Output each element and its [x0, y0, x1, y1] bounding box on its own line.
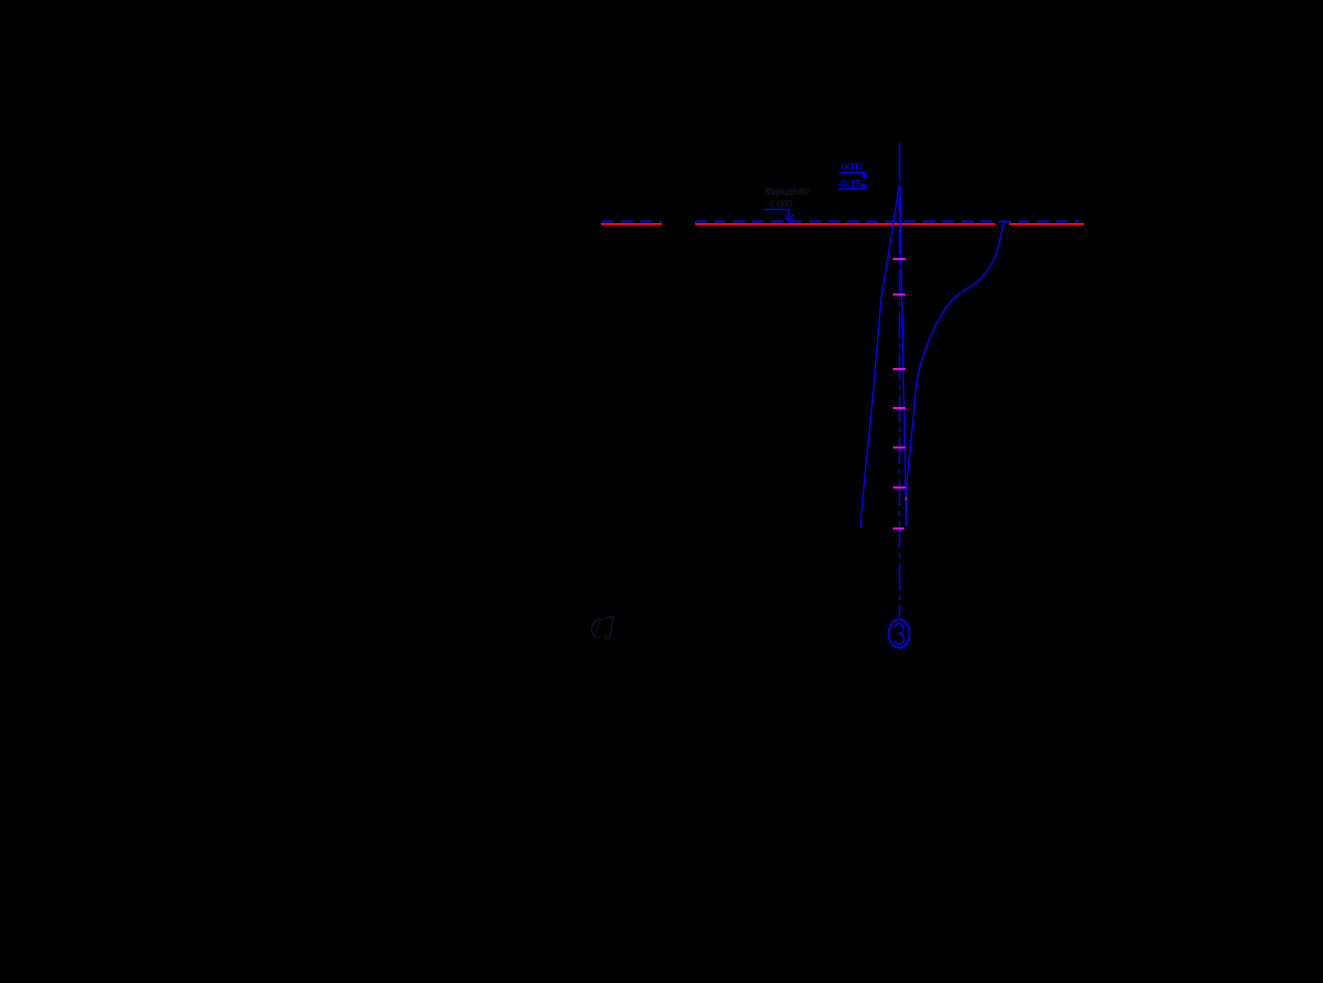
svg-text:Ур.сущ.земли: Ур.сущ.земли	[764, 186, 810, 198]
svg-text:0.000: 0.000	[841, 161, 862, 173]
